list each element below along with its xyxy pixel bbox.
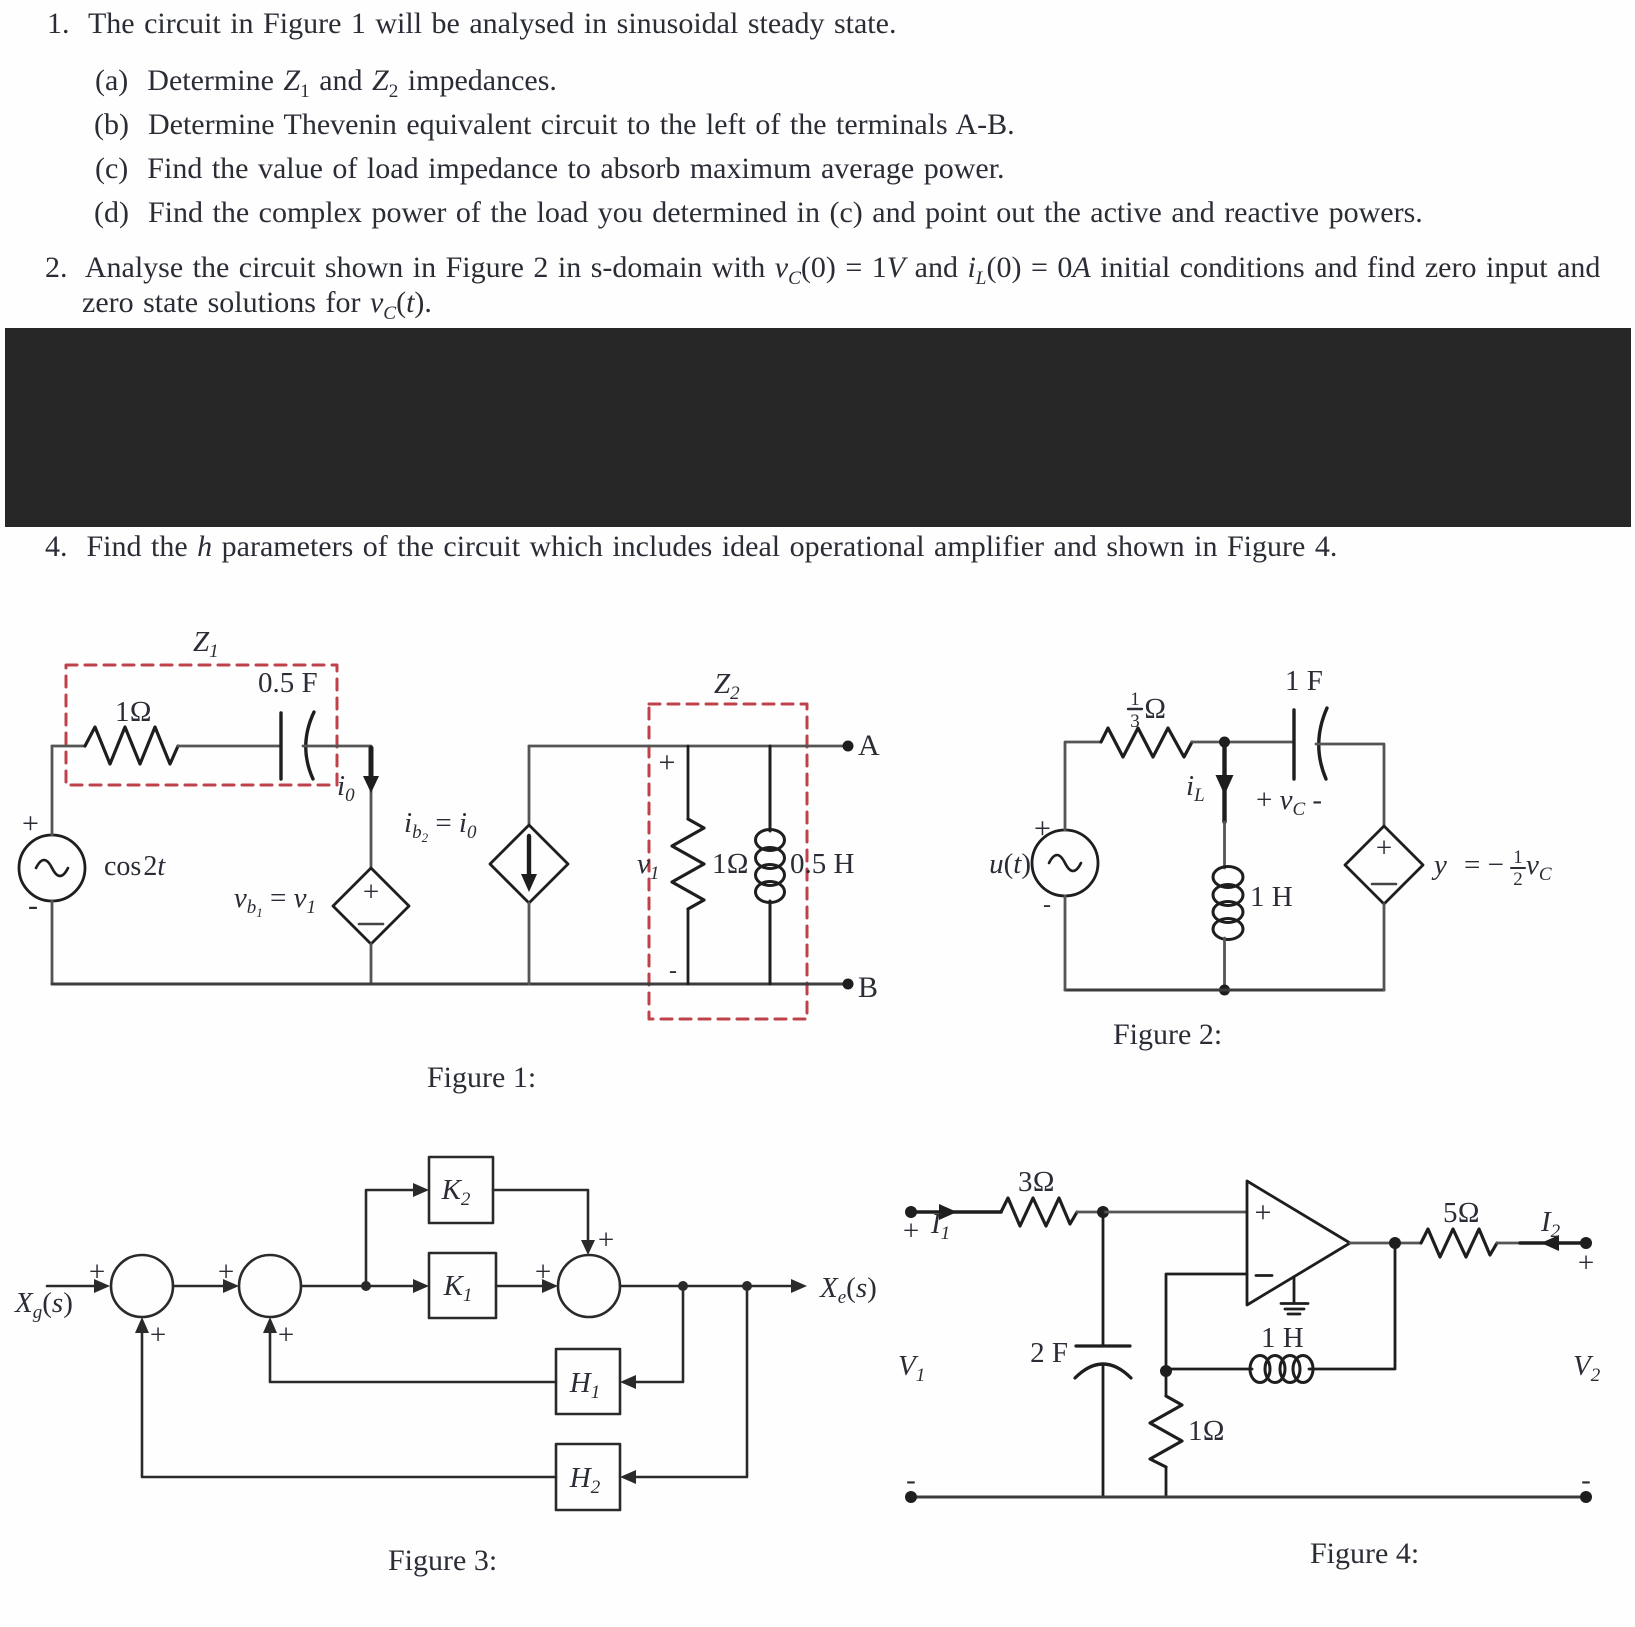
current arrow i0 on wire: [369, 748, 374, 782]
sinusoidal source cos2t circle: [19, 835, 85, 901]
y = -1/2 vC label: [1431, 847, 1552, 890]
svg-text:i0: i0: [337, 770, 355, 806]
svg-text:A: A: [858, 729, 880, 762]
Figure 1: [19, 626, 880, 1094]
Z1 dashed region box: [66, 665, 337, 785]
svg-text:1Ω: 1Ω: [1188, 1415, 1225, 1447]
wire: capacitor to corner and down to dependent source: [303, 746, 371, 868]
branch node dot to H1: [678, 1281, 688, 1291]
svg-text:-: -: [669, 958, 677, 984]
wire 5ohm to terminal with I2 arrow: [1497, 1242, 1520, 1245]
dependent voltage source vb1 diamond: [333, 868, 409, 944]
problem 2 line 1: [45, 251, 1600, 285]
redaction bar: [5, 328, 1631, 527]
arrow inside current source: [527, 836, 531, 878]
wire resistor to node: [1077, 1211, 1103, 1214]
input wire: [47, 1285, 104, 1288]
Figure 2: [989, 665, 1552, 1051]
dependent source y diamond: [1345, 826, 1423, 904]
H2 block: [556, 1444, 620, 1510]
wire branch up to K2: [366, 1190, 423, 1286]
capacitor 0.5F left plate: [279, 713, 282, 779]
svg-text:+: +: [1255, 1196, 1272, 1229]
svg-text:u(t): u(t): [989, 848, 1031, 880]
svg-text:-: -: [1581, 1464, 1591, 1496]
svg-text:1: 1: [1513, 847, 1523, 868]
svg-text:Z2: Z2: [714, 668, 740, 704]
svg-text:+ vC -: + vC -: [1256, 784, 1322, 820]
svg-text:-: -: [906, 1464, 916, 1496]
svg-text:Z1: Z1: [193, 626, 219, 662]
wire: Z2 resistor top stem: [687, 746, 690, 819]
wire: source top to top wire: [51, 746, 54, 835]
svg-text:Xe(s): Xe(s): [819, 1272, 877, 1308]
svg-text:+: +: [1034, 812, 1051, 845]
node dot after 3ohm: [1097, 1206, 1109, 1218]
svg-text:1: 1: [1130, 689, 1140, 710]
svg-text:+: +: [22, 807, 39, 840]
svg-text:1Ω: 1Ω: [115, 696, 152, 728]
wire: inductor bottom stem: [1223, 938, 1226, 990]
resistor 5ohm: [1421, 1229, 1497, 1257]
terminal dot bottom-left: [905, 1491, 917, 1503]
wire H2 to summer1 bottom: [142, 1323, 556, 1477]
wire summer1 to summer2: [173, 1285, 233, 1288]
capacitor 2F curved plate: [1075, 1364, 1131, 1378]
K2 block: [429, 1157, 493, 1223]
svg-text:K2: K2: [441, 1174, 471, 1210]
resistor 1ohm (series): [85, 727, 178, 764]
capacitor 1F left plate: [1292, 710, 1295, 779]
H1 block: [556, 1349, 620, 1414]
capacitor 2F top plate: [1076, 1344, 1130, 1347]
svg-text:y: y: [1431, 849, 1447, 881]
wire: source top stem: [1064, 746, 1067, 830]
svg-text:2: 2: [1513, 869, 1523, 890]
branch node dot: [361, 1281, 371, 1291]
iL current arrow: [1222, 744, 1226, 822]
inductor 0.5H coil: [756, 746, 785, 984]
summing junction 1: [111, 1255, 173, 1317]
resistor 3ohm: [1001, 1198, 1077, 1226]
svg-text:+: +: [363, 876, 379, 908]
svg-text:ib2 = i0: ib2 = i0: [404, 807, 477, 845]
svg-text:I2: I2: [1540, 1206, 1561, 1242]
wire: top left segment: [52, 745, 85, 748]
resistor 1/3 ohm: [1101, 728, 1192, 757]
svg-text:+: +: [1376, 832, 1392, 864]
node A dot: [843, 741, 854, 752]
svg-text:vC: vC: [1526, 849, 1552, 885]
wire: Z2 resistor bottom stem: [687, 909, 690, 984]
wire summer2 to branch node: [301, 1285, 366, 1288]
Figure 3: [14, 1157, 877, 1577]
wire: diamond bottom to bottom wire: [370, 944, 373, 984]
source u(t) circle: [1032, 830, 1098, 896]
Figure 4: [898, 1166, 1601, 1570]
node dot inverting net: [1160, 1365, 1172, 1377]
capacitor 1F curved plate: [1319, 708, 1327, 779]
wire: current source top stem: [528, 746, 531, 825]
wire: top left segment: [1065, 742, 1101, 746]
svg-text:cos2t: cos2t: [104, 851, 166, 882]
svg-text:V2: V2: [1573, 1350, 1601, 1386]
wire: current source bottom stem: [528, 903, 531, 984]
wire node down into H1: [626, 1286, 683, 1382]
terminal dot top-left: [905, 1206, 917, 1218]
wire H1 to summer2 bottom: [270, 1323, 556, 1382]
output node dot: [1389, 1237, 1401, 1249]
resistor 1ohm vertical: [1165, 1371, 1168, 1396]
Z2 dashed region box: [649, 704, 807, 1019]
wire: source bottom to bottom wire: [51, 901, 54, 984]
summing junction 3: [558, 1255, 620, 1317]
svg-text:V1: V1: [898, 1350, 925, 1386]
input wire with I1 arrow: [911, 1210, 1001, 1214]
item (d): [94, 196, 1423, 230]
problem text line 1: [47, 7, 896, 41]
bottom wire: [52, 983, 848, 986]
svg-text:B: B: [858, 971, 878, 1004]
branch node dot to H2: [742, 1281, 752, 1291]
svg-text:+: +: [598, 1224, 614, 1256]
summing junction 2: [239, 1255, 301, 1317]
svg-text:+: +: [218, 1256, 234, 1288]
svg-text:+: +: [903, 1215, 919, 1247]
svg-text:1Ω: 1Ω: [712, 848, 749, 880]
svg-text:vb1 = v1: vb1 = v1: [234, 882, 316, 920]
wire branch to K1: [366, 1285, 423, 1288]
svg-text:2 F: 2 F: [1030, 1337, 1068, 1369]
svg-text:iL: iL: [1186, 770, 1205, 806]
svg-text:Figure 2:: Figure 2:: [1113, 1018, 1222, 1051]
svg-text:K1: K1: [443, 1270, 473, 1306]
op-amp output wire: [1350, 1242, 1421, 1245]
item (b): [94, 108, 1015, 142]
bottom wire: [1065, 989, 1384, 992]
wire inductor to inverting node: [1166, 1368, 1252, 1371]
op-amp inverting input wire: [1166, 1274, 1247, 1371]
sine symbol: [1049, 855, 1081, 871]
svg-text:+: +: [1578, 1247, 1594, 1279]
svg-text:0.5 H: 0.5 H: [790, 848, 855, 880]
svg-text:+: +: [535, 1256, 551, 1288]
svg-text:Xg(s): Xg(s): [14, 1287, 73, 1323]
bottom wire: [911, 1496, 1586, 1499]
sine symbol: [36, 860, 68, 876]
svg-text:H2: H2: [569, 1462, 601, 1498]
op-amp minus input sign: [1256, 1274, 1272, 1277]
capacitor 2F stem from node: [1102, 1212, 1105, 1346]
wire node to op-amp plus input: [1103, 1211, 1247, 1214]
terminal dot bottom-right: [1580, 1491, 1592, 1503]
svg-text:+: +: [150, 1319, 166, 1351]
K1 block: [429, 1253, 496, 1318]
wire: resistor to node: [1192, 741, 1294, 744]
ground: [1281, 1277, 1308, 1314]
svg-text:+: +: [89, 1256, 105, 1288]
svg-text:1 F: 1 F: [1285, 665, 1323, 697]
svg-text:+: +: [659, 746, 676, 779]
svg-text:Figure 1:: Figure 1:: [427, 1061, 536, 1094]
svg-text:Figure 4:: Figure 4:: [1310, 1537, 1419, 1570]
capacitor 0.5F curved plate: [306, 712, 314, 779]
svg-text:+: +: [278, 1319, 294, 1351]
node dot top: [1219, 737, 1230, 748]
diamond minus: [1372, 883, 1396, 886]
diamond minus: [359, 923, 383, 926]
wire output node down to inductor: [1309, 1243, 1395, 1369]
svg-text:-: -: [1043, 892, 1051, 918]
item (a): [95, 64, 557, 98]
wire: source bottom stem: [1064, 896, 1067, 990]
node B dot: [843, 979, 854, 990]
svg-text:5Ω: 5Ω: [1443, 1197, 1480, 1229]
wire K1 to summer3: [496, 1285, 552, 1288]
svg-text:H1: H1: [569, 1367, 600, 1403]
svg-text:= −: = −: [1464, 849, 1504, 881]
resistor 1ohm (Z2 branch) vertical: [672, 819, 704, 909]
problem 4: [45, 530, 1337, 564]
inductor 1H coil: [1213, 867, 1243, 940]
op-amp U1 triangle: [1247, 1181, 1350, 1305]
svg-text:v1: v1: [637, 848, 659, 884]
svg-text:-: -: [28, 889, 38, 922]
svg-text:3: 3: [1130, 711, 1140, 732]
wire node down into H2: [626, 1286, 747, 1477]
1/3 ohm value label: [1128, 689, 1166, 732]
wire: top wire over current source to A: [529, 745, 848, 748]
problem 2 line 2: [82, 286, 432, 320]
item (c): [95, 152, 1005, 186]
output wire: [620, 1285, 801, 1288]
wire K2 to summer3 top: [493, 1190, 588, 1249]
inductor 1H horizontal coil: [1250, 1356, 1313, 1383]
svg-text:1 H: 1 H: [1261, 1322, 1304, 1354]
svg-text:0.5 F: 0.5 F: [258, 667, 318, 699]
svg-text:Ω: Ω: [1144, 693, 1166, 725]
svg-text:Figure 3:: Figure 3:: [388, 1544, 497, 1577]
svg-text:1 H: 1 H: [1250, 881, 1293, 913]
wire: resistor to capacitor: [178, 745, 281, 748]
wire: capacitor to right corner: [1316, 744, 1384, 826]
wire capacitor to bottom: [1102, 1366, 1105, 1497]
wire: diamond bottom stem: [1383, 904, 1386, 990]
terminal dot top-right: [1580, 1237, 1592, 1249]
node dot bottom: [1219, 985, 1230, 996]
svg-text:3Ω: 3Ω: [1018, 1166, 1055, 1198]
dependent current source ib2 diamond: [490, 825, 568, 903]
